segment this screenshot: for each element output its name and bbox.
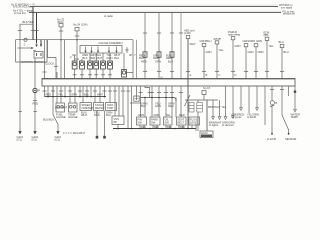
bulb L5 (101, 61, 106, 69)
svg-text:to ECM: to ECM (267, 137, 277, 141)
connector box on x136.5 (134, 96, 139, 101)
wire right of ignition box (48, 40, 57, 58)
svg-text:BLU: BLU (84, 92, 89, 96)
svg-text:BLK: BLK (141, 125, 146, 129)
svg-text:BRN/WHT YEL: BRN/WHT YEL (208, 105, 227, 109)
svg-text:BLU/WHT: BLU/WHT (73, 131, 85, 135)
svg-text:to ECM (A15) fuse: to ECM (A15) fuse (13, 6, 33, 9)
svg-text:WHT: WHT (81, 113, 87, 117)
node label left of bus 2 (13, 10, 34, 15)
wire x198 to ECM box (197, 112, 199, 131)
ticks y71.5 mid drops (143, 71, 147, 73)
svg-text:IGNITION SWITCH: IGNITION SWITCH (21, 60, 44, 64)
svg-text:YEL: YEL (269, 44, 275, 48)
svg-text:(G1): (G1) (55, 137, 60, 141)
wire x233 (232, 40, 234, 79)
labels under row A arrows (209, 120, 235, 127)
ticks below strip right (270, 89, 274, 91)
pin x109 (108, 47, 110, 53)
svg-text:METER: METER (95, 106, 104, 110)
wire x53 down (52, 86, 54, 115)
svg-text:8P: 8P (114, 120, 117, 124)
svg-text:TEMP: TEMP (291, 115, 299, 119)
connector symbol x233 (231, 37, 235, 40)
svg-text:No.24 (15A): No.24 (15A) (73, 23, 88, 27)
bulb L7 (122, 70, 127, 78)
wire x217 (216, 44, 218, 79)
ignition switch box left edge (15, 40, 17, 62)
right mid: fuse No.15 label (203, 86, 211, 90)
label Y (134, 53, 136, 57)
bulb L4 (94, 61, 99, 69)
connector symbol x282 (280, 44, 284, 47)
drops from bus2: x145 (144, 13, 146, 79)
gauge connector box (80, 46, 122, 54)
svg-text:BLK: BLK (83, 56, 88, 60)
drop E x267: label (264, 30, 270, 37)
svg-text:RED: RED (166, 56, 172, 60)
svg-text:to dimmer: to dimmer (222, 123, 234, 127)
labels under meter boxes (81, 110, 113, 117)
pin labels row (83, 53, 121, 60)
svg-text:BLK: BLK (154, 125, 159, 129)
label under tick (33, 102, 39, 106)
svg-text:BLU: BLU (279, 40, 284, 44)
svg-text:BLU: BLU (139, 56, 144, 60)
ignition switch rotor circle (24, 38, 27, 41)
svg-text:A: A (190, 73, 192, 77)
svg-text:WHT: WHT (97, 92, 103, 96)
wire x188 (187, 39, 189, 129)
label BLU/WHT near x53 (55, 106, 67, 110)
svg-text:BLU: BLU (168, 60, 173, 64)
svg-text:WHT: WHT (96, 56, 102, 60)
connector tick x110 (108, 90, 112, 92)
wire under fuse (203, 95, 205, 101)
wires boxes to bus (139, 125, 141, 129)
jog line x130-141 (130, 102, 141, 104)
mid bottom drops x136-181 (136, 86, 138, 100)
labels above switch boxes (138, 113, 185, 117)
svg-text:SW: SW (138, 121, 143, 125)
node label right of bus 2 (282, 10, 295, 15)
svg-text:GRN: GRN (154, 113, 160, 117)
switch arm wire (18, 47, 33, 49)
connector symbol x217 (215, 41, 219, 44)
dashed note (63, 132, 72, 134)
tick row y91 left (42, 90, 46, 92)
connector symbol x267 (265, 37, 269, 40)
hatched connector box 1 (189, 103, 194, 113)
label x295 (291, 113, 300, 120)
wire x53 diagonal to ground (53, 115, 58, 132)
arrow x295 water temp (294, 109, 297, 112)
svg-text:C: C (219, 73, 221, 77)
bulb L2 (80, 61, 85, 69)
fuel gauge box (56, 103, 65, 112)
node label left of bus 1 (11, 3, 35, 8)
switch box row: box S1 (137, 117, 147, 125)
wire x267 (266, 40, 268, 78)
svg-text:4: 4 (70, 55, 72, 59)
terminal block of ignition switch (34, 52, 43, 59)
wire x35 lower (34, 93, 36, 132)
wire bus y97.5 mid (141, 98, 177, 102)
svg-text:RED: RED (90, 56, 96, 60)
circuit strip dark top edge (42, 78, 295, 80)
connector symbol x204 (202, 43, 206, 46)
wires down from y100 (197, 100, 199, 103)
svg-text:BLU/WHT: BLU/WHT (55, 106, 67, 110)
svg-text:OMETER: OMETER (82, 106, 94, 110)
svg-text:RED: RED (46, 92, 52, 96)
drop B x204: label (200, 39, 212, 43)
svg-text:oil press: oil press (232, 115, 243, 119)
ground end x105 (103, 136, 106, 139)
svg-text:to fuse box: to fuse box (14, 12, 26, 15)
tick x35 y100.5 (33, 100, 37, 102)
labels below mid component boxes (141, 60, 173, 64)
connector tick x20 (18, 30, 22, 32)
terminal arrow x41 (40, 44, 42, 47)
circuit strip box (42, 79, 295, 87)
fuse F1 (59, 24, 63, 27)
svg-text:to ECM: to ECM (247, 115, 257, 119)
pin x91.5 (90, 47, 92, 53)
svg-text:YEL: YEL (58, 92, 64, 96)
gauge box right edge (132, 40, 134, 79)
svg-text:GRN: GRN (71, 92, 77, 96)
dots bottom right (271, 133, 273, 135)
svg-text:GRN: GRN (235, 44, 241, 48)
connector tick x127 (126, 47, 128, 53)
connector symbol x188 (186, 36, 190, 39)
tick row y92.5 mid (138, 92, 142, 94)
svg-text:GRN/ORN GRN: GRN/ORN GRN (243, 39, 262, 43)
tick row under bulbs (73, 74, 77, 76)
wire S1 feed (144, 98, 146, 118)
label P (38, 89, 40, 93)
connector tick x44.5 (42, 71, 46, 73)
svg-text:RED: RED (179, 113, 185, 117)
drop A x188: label (184, 29, 195, 36)
svg-text:GRN: GRN (155, 104, 161, 108)
wires into VSS (114, 86, 116, 116)
svg-text:GRN: GRN (138, 113, 144, 117)
label GAUGE ASSEMBLY (99, 41, 124, 45)
connector symbol x246 (244, 44, 248, 47)
bulb L3 (88, 61, 93, 69)
mid wire labels (141, 102, 175, 109)
svg-text:to lights: to lights (209, 123, 219, 127)
svg-text:LEVEL: LEVEL (190, 121, 199, 125)
wire y100 (185, 99, 218, 101)
bulb fill mark (34, 90, 36, 92)
scan echo above bus1 (34, 4, 278, 6)
right drops below strip (271, 86, 273, 100)
terminal marks BAT IG1 (36, 53, 38, 56)
svg-text:SW: SW (151, 121, 156, 125)
svg-text:YEL: YEL (219, 48, 225, 52)
ignition switch box bottom edge (16, 61, 48, 63)
dots on y97.5 (144, 97, 173, 99)
svg-text:(B8): (B8) (264, 33, 269, 37)
wire fuse F1 drop (60, 27, 62, 79)
box S5 (189, 117, 200, 125)
label BRN/WHT row (208, 105, 227, 109)
label 4P (129, 53, 132, 57)
component box on x159 (157, 52, 161, 58)
labels under boxes near bus (141, 125, 185, 129)
svg-text:(A18): (A18) (184, 31, 191, 35)
label 4 (70, 55, 72, 59)
svg-text:YEL: YEL (166, 113, 172, 117)
wire x131.5 (131, 86, 133, 129)
svg-text:2: 2 (24, 43, 26, 47)
svg-text:CLOCK: CLOCK (45, 62, 54, 66)
svg-text:No.15: No.15 (203, 86, 211, 90)
svg-text:RED: RED (153, 56, 159, 60)
drop x172 (171, 13, 173, 79)
odometer box (106, 103, 117, 111)
left strip drops (44, 86, 46, 97)
fuse label No.32 (57, 18, 65, 25)
wire labels above y96.6 (46, 92, 104, 96)
svg-text:BLU: BLU (114, 56, 119, 60)
ticks y71.5 right drops (202, 71, 206, 73)
pin x116.5 (115, 47, 117, 53)
junction bus y96.6 (45, 96, 107, 98)
wire x44.5 drop (44, 40, 46, 79)
box S3 (164, 117, 173, 125)
pin x98 (97, 47, 99, 53)
svg-text:main relay: main relay (228, 33, 241, 37)
label right of sensor (276, 101, 278, 105)
svg-text:B: B (276, 101, 278, 105)
label bottom right (267, 137, 296, 141)
svg-text:WHT: WHT (190, 42, 196, 46)
junction dots (47, 96, 105, 98)
ignition switch dashed boundary (16, 39, 134, 41)
junction dot x61 y39.7 (60, 39, 62, 41)
tachometer box (94, 103, 105, 111)
tick row mid (113, 90, 117, 92)
wire B5 feed (109, 86, 111, 103)
connector tick x77 (75, 35, 79, 37)
ground G403 (56, 131, 59, 134)
wire bus 2 (29, 12, 281, 14)
faint note (104, 14, 113, 18)
svg-text:window def: window def (283, 13, 295, 16)
tiny m note (161, 76, 164, 79)
wire bus 1 (30, 6, 278, 8)
wire drop from bus2 x36.5 (36, 13, 38, 44)
svg-text:turn signal: turn signal (281, 7, 292, 10)
svg-text:BLK: BLK (167, 125, 172, 129)
svg-text:B: B (206, 73, 208, 77)
svg-text:GRN: GRN (107, 56, 113, 60)
drop D x233: label (228, 30, 241, 37)
pin tick left of terminal block (33, 49, 36, 51)
connector symbol x256 (254, 44, 258, 47)
diagonal wire near x188 (185, 95, 191, 106)
pin x85.5 (84, 47, 86, 53)
svg-text:(G1): (G1) (17, 137, 22, 141)
wire VSS to bottom bus (117, 125, 119, 129)
drop x181 (180, 13, 182, 79)
wire odometer down x105 (104, 111, 106, 136)
svg-text:RED: RED (168, 104, 174, 108)
box S4 (177, 117, 187, 125)
ground end x97 (96, 136, 99, 139)
svg-text:GAUGE: GAUGE (68, 115, 78, 119)
svg-text:BLU: BLU (284, 50, 289, 54)
svg-text:GRN: GRN (155, 60, 161, 64)
wire x41 drop (40, 40, 42, 45)
label CLOCK (45, 62, 54, 66)
wire label BLK/YEL (23, 20, 34, 24)
tick x36 y111 (33, 111, 37, 113)
drop C x217: label (214, 37, 222, 40)
terminal arrow x36.5 (35, 44, 37, 47)
svg-text:to radio: to radio (104, 14, 113, 18)
svg-text:GRN: GRN (248, 50, 254, 54)
hatched connector box 2 (197, 103, 203, 113)
wire x246 (245, 47, 247, 79)
wire x56 down (55, 58, 57, 79)
svg-text:BLK: BLK (180, 125, 185, 129)
svg-text:ORN: ORN (258, 50, 264, 54)
labels under ticks y74.5 (190, 73, 237, 77)
connector tick x61 (59, 30, 63, 32)
svg-text:TRIP: TRIP (107, 106, 113, 110)
svg-text:ECM: ECM (202, 131, 209, 135)
svg-text:BLU/BLK: BLU/BLK (43, 118, 54, 122)
wire fuse F2 drop (76, 31, 78, 61)
wire x204 (203, 47, 205, 79)
svg-text:(G1): (G1) (32, 137, 37, 141)
svg-text:Y: Y (134, 53, 136, 57)
drop G x282: label (279, 40, 284, 44)
svg-text:BLK: BLK (141, 104, 146, 108)
wire x64 (64, 40, 66, 79)
wires pins to bulbs (74, 55, 76, 61)
label BLU/BLK (43, 118, 54, 122)
component box on x145 (143, 52, 147, 58)
wire x256 (255, 47, 257, 79)
wire x35 down from ignition (34, 58, 36, 88)
ticks on bus2 drops y33 (143, 32, 147, 34)
tick x128/131 (126, 90, 130, 92)
VSS box (112, 116, 124, 125)
svg-text:SENSOR: SENSOR (285, 137, 296, 141)
svg-text:GRN: GRN (206, 50, 212, 54)
svg-text:RED: RED (33, 102, 39, 106)
sensor arrow mark (270, 105, 274, 107)
labels mid drops (139, 53, 172, 60)
connector tick x77 low (75, 58, 79, 60)
tick x56 (54, 65, 58, 67)
wires bulbs to strip (74, 69, 76, 79)
component box on x172 (170, 52, 174, 58)
wire x282 (281, 48, 283, 79)
svg-text:GRN/BLU: GRN/BLU (200, 39, 212, 43)
fuse label No.24 (73, 23, 88, 27)
connector tick x74 (72, 54, 76, 56)
labels under row B arrows (232, 112, 259, 119)
temp gauge box (69, 103, 78, 112)
wire x128 (127, 86, 129, 129)
switch arm arrowhead (31, 47, 34, 49)
connector arrows row B tips y110.5 (232, 116, 235, 119)
sensor circle x272 (270, 101, 274, 105)
svg-text:P: P (38, 89, 40, 93)
bulb L1 (72, 61, 77, 69)
label fuel/temp (56, 112, 78, 119)
bulb on ignition feed (33, 88, 37, 92)
connector tick x36.5 (34, 30, 38, 32)
svg-text:BLK: BLK (106, 113, 111, 117)
ground G402 (33, 131, 36, 134)
ECM box bottom (200, 131, 213, 138)
label IGNITION SWITCH (21, 60, 44, 64)
wire color labels right drops (190, 42, 289, 54)
diagonal wire right (282, 115, 289, 134)
svg-text:GAUGE: GAUGE (56, 115, 66, 119)
connector tick x33 (31, 30, 35, 32)
drop x159 (158, 13, 160, 79)
svg-text:SW: SW (165, 121, 170, 125)
svg-text:BLK/YEL: BLK/YEL (23, 20, 34, 24)
wire jog to x20 (20, 24, 33, 131)
bottom bus dots (117, 128, 189, 130)
ignition switch box right edge (46, 40, 48, 62)
fuse F2 (75, 28, 79, 31)
bulb L6 (108, 61, 113, 69)
svg-text:D: D (235, 73, 237, 77)
svg-text:RED: RED (141, 60, 147, 64)
wire x136.5 (136, 40, 138, 79)
speedometer box (80, 103, 93, 111)
svg-text:4P: 4P (129, 53, 132, 57)
wire x57 short (56, 72, 58, 79)
svg-text:BELT: BELT (178, 121, 185, 125)
tick x20 y111 (18, 111, 22, 113)
scan echo above bus2 (33, 10, 281, 12)
box S2 (150, 117, 160, 125)
drop F label (243, 39, 262, 43)
bottom bus (113, 128, 196, 130)
svg-text:GAUGE ASSEMBLY: GAUGE ASSEMBLY (99, 41, 124, 45)
fuse F3 (202, 91, 206, 95)
wire drop from bus1 x33 (32, 7, 34, 40)
node label right of bus 1 (279, 4, 293, 9)
label 2 (24, 43, 26, 47)
wire jog x145-x149.7 (145, 86, 150, 98)
connector arrows row A tips y119.5 (212, 117, 215, 120)
svg-text:gauge: gauge (214, 37, 222, 40)
wire speedometer down x97 (96, 111, 98, 136)
grounds left: G401 (18, 131, 21, 134)
wire into ECM left (195, 124, 197, 131)
